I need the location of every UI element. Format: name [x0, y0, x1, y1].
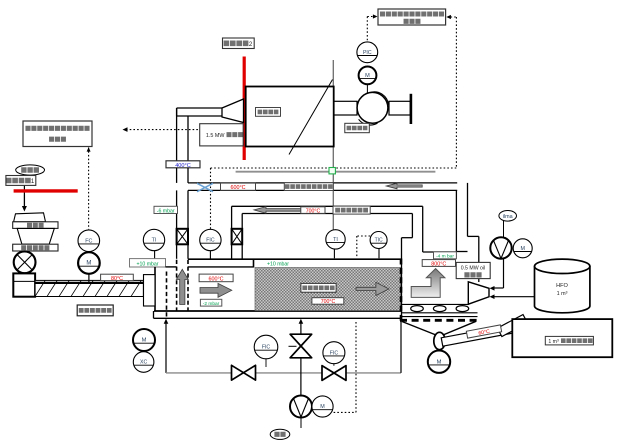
signal box: from plant2 command signal (automation) — [23, 121, 92, 147]
ash outlet ellipse — [434, 332, 445, 349]
green text +10 mbar right — [267, 262, 289, 268]
screw conveyor housing with hatch — [35, 280, 143, 296]
label box change-note-2 — [223, 38, 255, 49]
label box +10 mbar left — [130, 259, 166, 268]
oil pump motor M — [513, 239, 532, 258]
motor M of blower — [359, 67, 377, 85]
label box 700C on lower pipe — [301, 207, 325, 215]
svg-text:700°C: 700°C — [306, 208, 321, 214]
svg-text:1 m³: 1 m³ — [557, 291, 568, 297]
svg-text:TI: TI — [333, 237, 338, 243]
label box change-note-1 — [6, 176, 36, 186]
pipe gasifier fume line — [232, 206, 423, 213]
motor M bottom left — [133, 329, 155, 351]
label box 1 m3 ash container — [545, 336, 593, 345]
dashed signal wire PIC to top box — [367, 14, 377, 41]
thick dashed ash bottom line — [400, 319, 478, 322]
svg-text:M: M — [520, 246, 525, 252]
svg-text:1 m³: 1 m³ — [548, 339, 559, 345]
gasifier bed gray hatched area — [255, 268, 401, 311]
oil pump circle with triangle — [490, 237, 511, 258]
pipe blower to flange — [389, 101, 410, 115]
dashed signal wire from box down to FC controller — [87, 147, 91, 229]
vessel top edge — [166, 259, 254, 267]
svg-text:-4 m bar: -4 m bar — [436, 254, 454, 260]
dashed feed inlet column — [177, 260, 188, 311]
gray air pipe horizontal — [166, 372, 401, 374]
svg-text:700°C: 700°C — [321, 299, 336, 305]
fuel nozzle cone — [468, 282, 489, 304]
red thick line 1 — [14, 189, 78, 192]
svg-text:ilma: ilma — [503, 214, 513, 220]
svg-text:M: M — [320, 404, 325, 410]
rollers — [411, 306, 469, 312]
instrument TIC — [370, 232, 387, 259]
svg-text:+10 mbar: +10 mbar — [136, 261, 158, 267]
red thick line 2 — [243, 57, 246, 161]
right column duct down to vessel — [232, 206, 243, 258]
svg-text:80°C: 80°C — [111, 276, 123, 282]
label box 800C — [422, 260, 455, 268]
gray right arrow in drying zone — [200, 283, 232, 297]
stem M to conveyor — [88, 274, 90, 282]
controller XC — [133, 352, 154, 373]
gray right arrow in bed — [356, 282, 389, 295]
label box screw feeding device — [77, 305, 113, 316]
svg-text:-2 mbar: -2 mbar — [203, 301, 220, 307]
svg-text:M: M — [365, 73, 370, 79]
gray bent arrow in burner box — [411, 269, 445, 298]
dashed signal wire horizontal FIC to right elbow — [211, 167, 457, 169]
svg-text:FIC: FIC — [206, 238, 215, 244]
thin vertical line furnace centerline down to TI — [332, 60, 334, 231]
svg-text:600°C: 600°C — [230, 185, 245, 191]
gray arrow left on lower pipe — [254, 207, 301, 214]
label box -4 m bar — [434, 252, 457, 260]
dotted wire motor M to vessel bottom — [334, 321, 356, 413]
svg-text:M: M — [437, 359, 442, 365]
controller FC circle — [78, 230, 100, 252]
svg-text:FC: FC — [85, 238, 92, 244]
vessel bottom line — [154, 310, 402, 312]
feed hopper lower trapezoid — [17, 228, 54, 244]
svg-text:HFO: HFO — [556, 283, 568, 289]
vessel left edge — [154, 267, 156, 311]
label box stack 直排烟囱 — [256, 108, 281, 117]
blue cross on pipe — [197, 183, 213, 191]
rotary star valve circle with X — [14, 251, 36, 273]
air blower pump circle — [290, 396, 312, 418]
stem M to blower — [366, 84, 368, 92]
instrument FIC air2 — [323, 342, 345, 366]
valve bowtie air line left — [232, 365, 256, 380]
vessel lower channel line — [154, 311, 403, 318]
fuel line tank to nozzle — [490, 294, 535, 299]
ellipse air source — [270, 429, 290, 439]
valve air vertical hourglass — [289, 334, 312, 358]
air riser center — [299, 319, 304, 396]
dashed signal arrow to left of 1.5MW furnace label — [123, 127, 200, 132]
instrument TI mid — [326, 230, 345, 259]
label box fume and steam pipeline — [284, 183, 333, 191]
controller PIC of blower — [357, 42, 378, 63]
instrument TI left — [143, 229, 164, 258]
feed transfer box into vessel — [144, 275, 156, 306]
feed hopper top trapezoid — [14, 213, 46, 222]
wire ilma to oil pump — [503, 221, 505, 238]
svg-text:M: M — [142, 338, 147, 344]
label box gasification reaction device — [301, 283, 336, 292]
svg-text:800°C: 800°C — [431, 262, 446, 268]
label box -2 mbar — [200, 299, 221, 307]
gray horizontal reference line — [236, 171, 436, 173]
duct below 400C box to pipe — [177, 168, 188, 183]
svg-text:-6 mbar: -6 mbar — [157, 208, 175, 214]
ash motor M — [428, 351, 450, 373]
svg-text:XC: XC — [140, 360, 147, 366]
ellipse dry wood chips — [16, 165, 45, 175]
label box 700C in bed — [312, 298, 344, 306]
duct down from elbow — [177, 108, 188, 161]
label box fume pipeline — [333, 206, 370, 214]
burner housing outline — [402, 236, 479, 318]
svg-text:TI: TI — [152, 238, 157, 244]
ilma ellipse — [499, 211, 517, 222]
feed drop box — [13, 273, 35, 296]
stack chamber box — [246, 80, 334, 155]
wire pump down — [300, 418, 302, 429]
air blower motor M — [312, 396, 333, 417]
valve X left column — [177, 229, 188, 245]
down column from 600C pipe — [456, 183, 467, 252]
svg-text:600°C: 600°C — [208, 277, 223, 283]
valve bowtie air line right — [322, 366, 346, 381]
cone nozzle into stack — [222, 99, 244, 123]
instrument FIC air1 — [254, 335, 278, 367]
dashed thick vessel right separator — [400, 259, 403, 321]
label box exhaust fan 废气风机 — [345, 123, 370, 132]
exhaust blower fan circle — [357, 92, 388, 125]
svg-text:FIC: FIC — [262, 345, 271, 351]
label box 60C on conveyor — [466, 325, 501, 339]
left column duct down to vessel — [177, 190, 188, 258]
label box -6 mbar — [154, 206, 178, 214]
label box 1.5 MW gas furnace — [200, 124, 244, 146]
gray up arrow in feed column — [176, 269, 188, 304]
wire from ellipse to hopper — [23, 175, 25, 195]
dashed signal wire FIC up — [210, 168, 212, 229]
label box star feeder valve — [13, 244, 58, 251]
signal box: send command signal to plant2 (automation) — [378, 9, 446, 25]
svg-text:PIC: PIC — [363, 50, 372, 56]
vessel top manifold line — [188, 258, 402, 260]
pipe furnace to blower — [334, 101, 357, 115]
inclined ash conveyor — [441, 315, 527, 347]
label box 0.5 MW oil burner — [456, 262, 490, 278]
roller rail lines — [402, 304, 478, 316]
instrument FIC — [200, 229, 221, 258]
label box 80C on conveyor — [101, 274, 134, 282]
svg-text:TIC: TIC — [375, 238, 383, 244]
valve X right column — [232, 229, 243, 245]
svg-text:+10 mbar: +10 mbar — [267, 262, 289, 268]
svg-text:1.5 MW: 1.5 MW — [206, 133, 225, 139]
dashed inner wall left — [166, 272, 168, 319]
arrow into feed hopper — [22, 195, 27, 212]
svg-text:0.5 MW oil: 0.5 MW oil — [461, 266, 486, 272]
HFO tank cylinder — [535, 259, 590, 313]
label box 600C in vessel — [199, 274, 233, 282]
label box feed hopper 进料斗 — [13, 222, 58, 229]
air wire left riser — [164, 319, 169, 373]
label box 400C — [166, 161, 200, 169]
dashed signal wire top box right elbow down to FIC line — [446, 15, 456, 168]
air wire right riser — [400, 321, 402, 373]
furnace exhaust duct horizontal — [177, 108, 222, 116]
ash collection box 1m3 — [512, 319, 612, 357]
svg-text:FIC: FIC — [330, 350, 339, 356]
svg-text:M: M — [86, 261, 91, 267]
down column from 700C pipe — [412, 206, 422, 252]
ash V hopper — [402, 321, 476, 335]
fuel line pump to nozzle — [490, 259, 504, 291]
green selection handle — [329, 168, 335, 174]
flange right — [410, 94, 413, 124]
gray arrow left on upper pipe — [386, 183, 422, 189]
motor M circle of screw conveyor — [78, 252, 100, 274]
label box 600C on upper pipe — [221, 183, 256, 191]
dotted TIC to vessel — [357, 236, 370, 258]
pipe gasifier fume+steam line — [188, 183, 457, 191]
